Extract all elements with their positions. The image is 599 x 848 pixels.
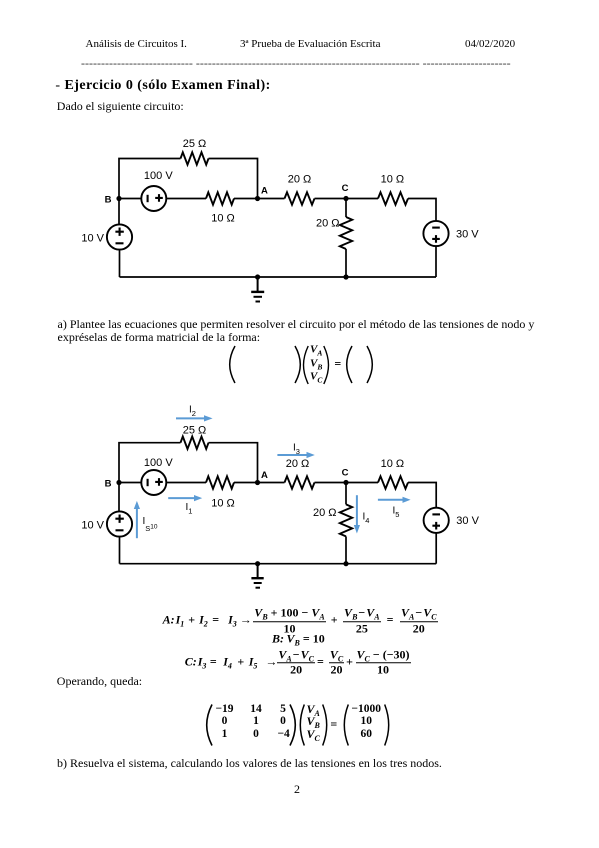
resistor R 25ohm — [181, 152, 209, 164]
wire R10r to right corner down — [408, 199, 436, 221]
node A dot — [255, 196, 260, 201]
resistor R 10ohm right ckt2 — [378, 476, 408, 488]
svg-text:20 Ω: 20 Ω — [316, 217, 340, 229]
svg-text:30 V: 30 V — [456, 515, 479, 527]
current arrow I1 — [168, 495, 202, 501]
wire B down to 10V source ckt2 — [118, 483, 120, 512]
ground symbol ckt2 — [251, 564, 263, 588]
svg-text:20 Ω: 20 Ω — [313, 507, 337, 519]
node B dot — [116, 196, 121, 201]
wire B to source 2 — [119, 482, 141, 484]
wire top loop right 2 — [209, 443, 258, 483]
resistor R 10ohm — [206, 192, 234, 204]
wire R20v to bottom — [345, 249, 347, 277]
bottom rail wire ckt2 — [120, 563, 437, 565]
svg-text:10 Ω: 10 Ω — [381, 174, 405, 186]
wire source to R10 ckt2 — [166, 482, 206, 484]
wire 10V to bottom rail ckt2 — [119, 537, 121, 564]
svg-text:A: A — [261, 186, 268, 197]
svg-text:C: C — [342, 467, 349, 478]
svg-text:B: B — [105, 478, 112, 489]
wire R20 to C ckt2 — [315, 482, 379, 484]
final matrix equation — [205, 703, 390, 747]
wire R10 to A ckt2 — [234, 482, 285, 484]
resistor R 25ohm ckt2 — [181, 437, 209, 449]
svg-text:20 Ω: 20 Ω — [286, 458, 310, 470]
resistor R 10ohm right — [378, 192, 408, 204]
wire C branch down ckt2 — [345, 483, 347, 505]
svg-text:I1: I1 — [186, 502, 193, 516]
exercise heading — [55, 78, 270, 94]
voltage source V1 100V ckt2 — [141, 470, 166, 495]
Operando, queda: — [57, 675, 142, 687]
page number — [294, 783, 300, 795]
svg-text:10 V: 10 V — [81, 520, 104, 532]
node A dot ckt2 — [255, 480, 260, 485]
svg-text:25 Ω: 25 Ω — [183, 425, 207, 437]
wire 10V to bottom rail — [119, 250, 121, 277]
node C dot ckt2 — [343, 480, 348, 485]
node C dot — [343, 196, 348, 201]
dashed separator — [81, 56, 511, 71]
wire R20v to bottom ckt2 — [345, 536, 347, 563]
svg-text:I4: I4 — [363, 512, 370, 526]
ground junction dot ckt2 — [255, 561, 260, 566]
ground symbol — [251, 277, 264, 302]
svg-text:10 V: 10 V — [81, 233, 104, 245]
resistor R 20ohm A-C ckt2 — [285, 476, 315, 488]
svg-text:30 V: 30 V — [456, 228, 479, 240]
voltage source V1 100V — [141, 186, 166, 211]
current arrow I2 — [176, 415, 213, 421]
intro line — [57, 100, 184, 112]
resistor R 10ohm ckt2 — [206, 476, 234, 488]
wire C branch down — [345, 199, 347, 218]
header row — [86, 38, 187, 51]
voltage source V2 10V — [107, 224, 132, 249]
junction dot C bottom ckt2 — [343, 561, 348, 566]
wire top loop right — [209, 159, 258, 199]
wire R20 to C — [315, 198, 379, 200]
svg-text:20 Ω: 20 Ω — [288, 174, 312, 186]
resistor R 20ohm vertical ckt2 — [340, 504, 352, 536]
equation line C — [185, 650, 411, 676]
svg-text:10 Ω: 10 Ω — [211, 213, 235, 225]
svg-text:I5: I5 — [393, 506, 400, 520]
wire B to source — [119, 198, 141, 200]
voltage source V3 30V ckt2 — [424, 508, 449, 533]
wire top loop left — [119, 159, 181, 199]
wire B down to 10V source — [118, 199, 120, 225]
current arrow I3 — [277, 452, 314, 458]
resistor R 20ohm A-C — [285, 192, 315, 204]
svg-text:IS10: IS10 — [143, 516, 158, 533]
empty matrix equation — [228, 344, 374, 385]
svg-text:I2: I2 — [189, 405, 196, 419]
ground junction dot — [255, 274, 260, 279]
svg-text:B: B — [105, 194, 112, 205]
current arrow Is10 — [134, 501, 140, 538]
current arrow I4 — [354, 495, 360, 533]
section b) text — [57, 757, 442, 769]
voltage source V3 30V — [423, 221, 448, 246]
resistor R 20ohm vertical — [340, 217, 352, 249]
wire 30V to bottom ckt2 — [435, 533, 437, 564]
svg-text:10 Ω: 10 Ω — [211, 498, 235, 510]
svg-text:C: C — [342, 183, 349, 194]
svg-text:I3: I3 — [293, 443, 300, 457]
svg-text:A: A — [261, 470, 268, 481]
svg-text:100 V: 100 V — [144, 170, 173, 182]
bottom rail wire — [120, 276, 437, 278]
wire R10r to right corner down ckt2 — [408, 483, 436, 508]
junction dot C bottom — [343, 274, 348, 279]
voltage source V2 10V ckt2 — [107, 511, 132, 536]
wire 30V to bottom — [435, 246, 437, 277]
equation line B — [272, 633, 325, 646]
wire R10 to A — [234, 198, 285, 200]
equation line A — [163, 608, 438, 634]
svg-text:25 Ω: 25 Ω — [183, 138, 207, 150]
svg-text:100 V: 100 V — [144, 457, 173, 469]
wire source to R10 — [166, 198, 206, 200]
section a) text — [58, 318, 535, 330]
wire top loop left 2 — [119, 443, 181, 483]
svg-text:10 Ω: 10 Ω — [381, 458, 405, 470]
current arrow I5 — [378, 497, 411, 503]
node B dot ckt2 — [116, 480, 121, 485]
